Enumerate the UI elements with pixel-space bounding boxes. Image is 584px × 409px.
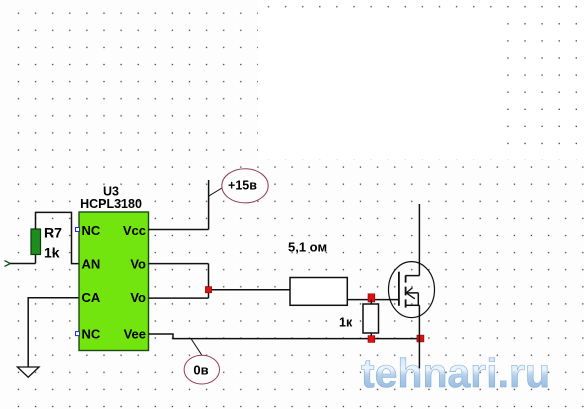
junction Vo node (205, 287, 211, 293)
resistor 1к (363, 304, 379, 333)
wire resistor 5,1 to gate (347, 299, 399, 301)
pointer line +15в (209, 188, 222, 196)
svg-text:Vee: Vee (124, 327, 146, 342)
svg-text:1k: 1k (44, 244, 60, 260)
junction source node (417, 335, 424, 342)
transistor Q1 MOSFET (389, 262, 435, 318)
svg-text:AN: AN (82, 257, 101, 272)
svg-text:0в: 0в (193, 362, 208, 377)
wire input to R7 bottom (10, 255, 35, 264)
wire drain up (418, 204, 420, 276)
svg-text:NC: NC (82, 327, 101, 342)
junction gate / 1k top (368, 294, 375, 302)
wire Vo upper (149, 263, 209, 265)
ground (17, 367, 39, 377)
port square NC bottom (76, 332, 80, 336)
wire Vo lower (149, 297, 209, 299)
source bar (406, 304, 420, 306)
drain bar (406, 275, 420, 277)
svg-text:tehnari.ru: tehnari.ru (361, 350, 550, 396)
wire Vee rail (149, 334, 421, 339)
resistor R7 (31, 229, 41, 255)
optocoupler U3 HCPL3180 body (79, 212, 149, 351)
input port arrow (5, 261, 11, 267)
channel dashes (405, 275, 407, 307)
svg-text:HCPL3180: HCPL3180 (80, 197, 142, 211)
svg-text:Vo: Vo (130, 257, 146, 272)
wire 1k bottom stub (370, 333, 372, 339)
wire CA pin to ground (28, 298, 79, 367)
svg-text:R7: R7 (44, 225, 62, 241)
svg-text:+15в: +15в (228, 179, 257, 193)
wire R7 top to AN pin (36, 212, 80, 263)
svg-text:CA: CA (82, 290, 101, 305)
svg-text:1к: 1к (339, 315, 353, 329)
callout ellipse 0в (184, 355, 219, 384)
body arrowhead (406, 288, 415, 299)
resistor 5,1 ом (290, 278, 347, 306)
svg-text:NC: NC (82, 223, 101, 238)
wire source down (418, 305, 420, 368)
transistor body circle (389, 262, 435, 318)
junction 1k bottom (368, 336, 375, 343)
gate line (398, 272, 400, 306)
svg-text:5,1 ом: 5,1 ом (288, 240, 327, 255)
wire Vo node to resistor 5,1 (209, 289, 291, 291)
pointer line 0в (191, 339, 203, 357)
wire 1k top stub (370, 300, 372, 304)
svg-text:Vo: Vo (130, 290, 146, 305)
wire Vo vertical tie (208, 264, 210, 299)
svg-text:Vcc: Vcc (123, 223, 146, 238)
wire Vcc to +15V rail (149, 180, 209, 230)
port square NC top (76, 228, 80, 232)
callout ellipse +15в (222, 169, 268, 203)
body bar (407, 293, 418, 305)
